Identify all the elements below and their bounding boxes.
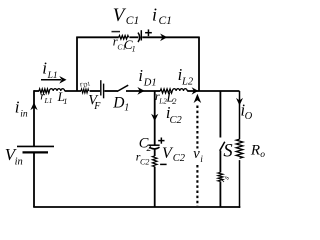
wire node to Ro corner <box>199 90 240 92</box>
svg-text:S: S <box>223 141 232 161</box>
arrowhead current iC1 <box>160 34 167 42</box>
minus sign of VC1 <box>112 31 121 33</box>
label L1 <box>57 89 68 106</box>
resistor rC2 <box>152 156 157 167</box>
svg-text:in: in <box>20 110 28 120</box>
label rC2 <box>136 150 150 167</box>
inductor L1 <box>49 89 64 91</box>
svg-text:1: 1 <box>63 96 67 106</box>
label iL1 <box>42 59 57 82</box>
label C2 <box>139 135 152 154</box>
wire battery branch lower <box>33 152 35 207</box>
svg-text:v: v <box>193 146 200 162</box>
resistor rC1 <box>119 36 129 40</box>
svg-text:F: F <box>93 101 101 112</box>
wire top loop left horizontal segment <box>77 36 119 38</box>
svg-text:2: 2 <box>172 96 177 106</box>
wire switch S branch upper <box>219 91 221 138</box>
minus sign of VC2 <box>160 163 167 165</box>
svg-text:i: i <box>200 155 203 165</box>
wire C2 branch upper <box>154 91 156 145</box>
svg-text:o: o <box>260 150 265 160</box>
capacitor C2 plates <box>148 145 159 149</box>
inductor L2 <box>172 89 187 91</box>
wire rC1 to C1 <box>129 36 138 38</box>
svg-text:O: O <box>245 111 253 122</box>
svg-text:in: in <box>15 156 23 167</box>
label iin <box>15 98 28 120</box>
svg-text:V: V <box>113 5 127 26</box>
svg-text:L1: L1 <box>47 71 58 81</box>
wire C1 to corner <box>142 36 199 38</box>
svg-text:i: i <box>42 59 47 78</box>
plus sign of VC1 <box>145 29 152 36</box>
svg-text:i: i <box>138 66 143 85</box>
svg-text:C2: C2 <box>170 115 183 126</box>
label iO <box>241 101 253 122</box>
wire rs to bottom rail <box>219 182 221 208</box>
wire battery branch upper <box>33 90 35 146</box>
wire C2 node to rL2 <box>155 90 161 92</box>
wire bottom rail <box>33 206 240 208</box>
arrowhead current iL1 with stem <box>41 76 67 84</box>
label VC2 <box>162 145 186 164</box>
wire top loop left vertical <box>76 37 78 92</box>
label rL2 <box>155 89 167 106</box>
wire L1 to rD1 <box>65 90 81 92</box>
label VF <box>88 92 101 112</box>
label Ro <box>250 142 265 160</box>
label Vin <box>5 145 23 167</box>
wire rC2 to bottom rail <box>154 167 156 207</box>
label rL1 <box>40 89 52 106</box>
plus sign of VC2 <box>158 138 164 144</box>
svg-text:rD1: rD1 <box>78 77 91 90</box>
label rs rotated <box>217 172 231 185</box>
diode D1 ideal switch blade <box>117 85 128 91</box>
arrowhead current iO <box>236 98 243 106</box>
resistor rD1 <box>81 89 89 93</box>
arrowhead current iin <box>30 102 37 110</box>
wire Ro branch upper <box>239 91 241 139</box>
wire VF to switch gap <box>104 90 117 92</box>
svg-text:i: i <box>15 98 20 117</box>
wire vi dashed measurement line <box>196 106 198 207</box>
wire S blade to rs <box>219 151 221 173</box>
svg-text:L2: L2 <box>181 77 194 88</box>
wire Ro to bottom rail <box>239 160 241 208</box>
battery Vin long plate <box>17 145 54 147</box>
svg-text:L1: L1 <box>44 96 53 105</box>
svg-text:C1: C1 <box>159 15 172 27</box>
label VC1 <box>113 5 139 27</box>
battery Vin short plate <box>23 151 49 153</box>
svg-text:1: 1 <box>124 102 129 113</box>
svg-text:i: i <box>152 4 157 24</box>
switch S blade <box>220 142 225 151</box>
svg-text:C1: C1 <box>126 15 139 27</box>
label C1 <box>124 37 136 54</box>
wire top loop right vertical <box>198 37 200 92</box>
wire C2 plates to rC2 <box>154 149 156 156</box>
resistor Ro <box>236 139 243 158</box>
capacitor C1 <box>138 30 141 42</box>
wire L2 to node <box>187 90 199 92</box>
arrowhead current iD1 <box>137 87 144 95</box>
label L2 <box>165 89 177 106</box>
resistor rL2 <box>160 89 172 93</box>
resistor rL1 <box>39 89 49 93</box>
svg-text:1: 1 <box>132 45 136 54</box>
arrowhead voltage vi dashed arrow <box>194 94 202 103</box>
label iL2 <box>178 65 194 88</box>
label vi <box>193 146 203 165</box>
label rC1 <box>113 35 126 52</box>
wire rD1 to VF <box>90 90 100 92</box>
label iD1 <box>138 66 156 89</box>
wire rail from battery corner <box>34 90 39 92</box>
wire D1 to C2 node <box>126 90 155 92</box>
svg-text:C2: C2 <box>173 153 186 164</box>
svg-text:C2: C2 <box>140 158 149 167</box>
arrowhead current iC2 <box>151 114 158 122</box>
label iC2 <box>166 103 183 126</box>
label iC1 <box>152 4 172 27</box>
svg-text:R: R <box>250 142 260 158</box>
svg-text:D1: D1 <box>143 78 157 89</box>
arrowhead current iL2 <box>192 87 199 94</box>
svg-text:2: 2 <box>147 144 152 154</box>
svg-text:D: D <box>112 95 124 112</box>
resistor rs <box>218 172 223 181</box>
voltage source VF plates <box>101 80 104 98</box>
label D1 <box>112 95 129 114</box>
